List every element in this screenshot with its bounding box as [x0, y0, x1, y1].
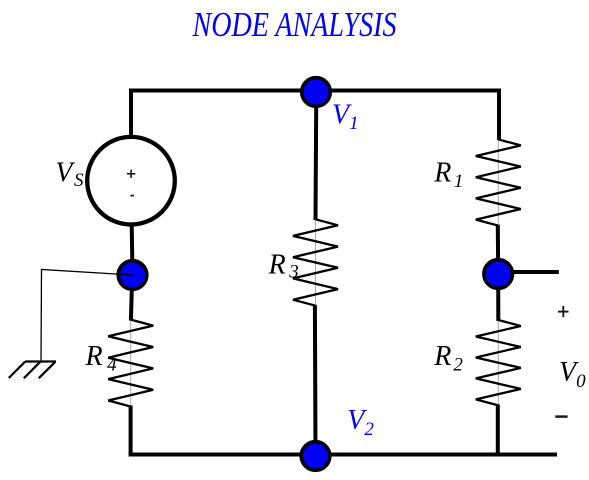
resistor R3 zigzag [293, 219, 338, 305]
wire middle branch upper (V1 to R3) [314, 92, 319, 220]
voltage source minus sign [131, 195, 135, 197]
voltage source plus sign [127, 170, 135, 178]
wire output stub from right node [498, 270, 559, 274]
wire source bottom to left node [130, 224, 135, 275]
wire R1 bottom to right node [496, 225, 500, 274]
ground symbol [9, 362, 56, 379]
svg-text:NODE ANALYSIS: NODE ANALYSIS [192, 5, 397, 44]
wire R4 bottom tail [129, 406, 133, 455]
resistor R2 zigzag [476, 320, 521, 405]
resistor R1 zigzag [476, 139, 521, 225]
label output minus [555, 415, 567, 418]
label output plus [558, 306, 569, 317]
wire right node to R2 [496, 274, 500, 321]
wire thin ground lead [41, 270, 133, 362]
node right dot [484, 260, 513, 289]
wire middle branch lower (R3 to V2) [313, 305, 318, 456]
wire thin lead overlay into left node [118, 274, 134, 275]
wire bottom rail [129, 453, 557, 457]
node V1 dot [302, 78, 331, 107]
node V2 dot [301, 442, 330, 471]
wire top rail with left and right drops [131, 91, 499, 141]
wire R2 bottom tail [496, 404, 500, 454]
node left dot [118, 261, 147, 290]
voltage source VS circle [87, 137, 175, 225]
wire left node to R4 [131, 275, 132, 321]
resistor R4 zigzag [108, 320, 153, 407]
